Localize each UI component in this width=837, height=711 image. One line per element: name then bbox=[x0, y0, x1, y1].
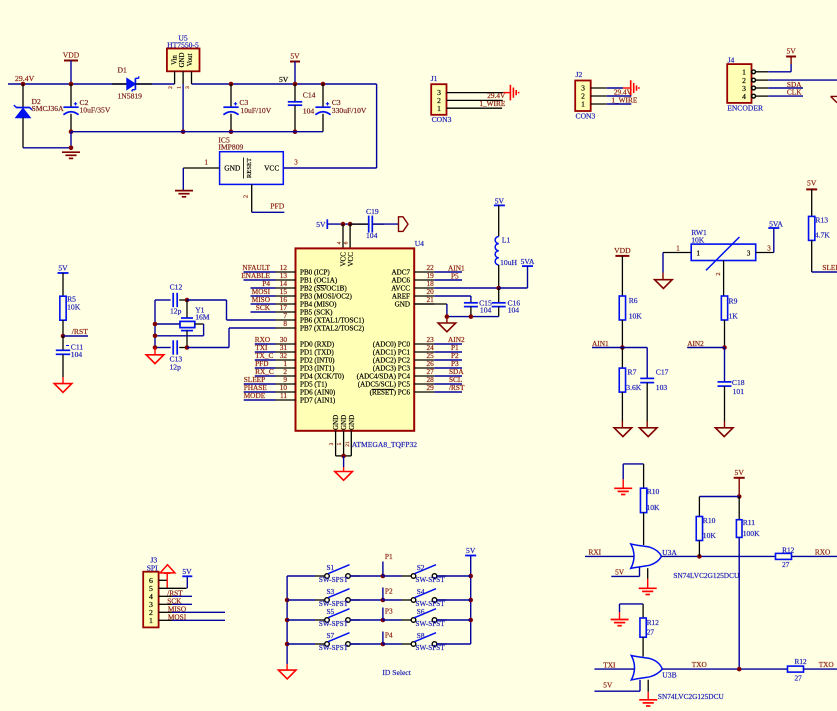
wire R11 down to TXO bbox=[738, 537, 740, 669]
pin U3B ground bbox=[647, 680, 649, 692]
svg-text:C14: C14 bbox=[303, 91, 316, 100]
svg-text:2: 2 bbox=[715, 272, 722, 275]
resistor R9 1K bbox=[721, 296, 727, 320]
wire GND to ground bbox=[343, 456, 345, 467]
wire 5V to IMP809 VCC bbox=[376, 84, 378, 168]
wire S7 to node P4 bbox=[350, 643, 383, 645]
junction C12-Y1 bbox=[185, 298, 190, 303]
ground triangle C18 bbox=[715, 428, 733, 437]
capacitor C3 330uF/10V bbox=[322, 84, 324, 107]
wire net PHASE bbox=[244, 391, 276, 393]
junction node P1 bbox=[381, 574, 386, 579]
svg-text:SW-SPST: SW-SPST bbox=[319, 644, 349, 652]
pin J4.2 wire SDA bbox=[752, 78, 756, 82]
svg-text:PB6 (XTAL1/TOSC1): PB6 (XTAL1/TOSC1) bbox=[300, 317, 365, 325]
gate U3B SN74LVC2G125DCU bbox=[620, 603, 644, 605]
svg-text:5VA: 5VA bbox=[769, 219, 783, 228]
ground red J1 bbox=[503, 92, 510, 94]
switch S6 SW-SPST bbox=[411, 618, 416, 623]
svg-text:104: 104 bbox=[366, 231, 378, 240]
gate body U3B bbox=[631, 656, 662, 680]
svg-text:10K: 10K bbox=[703, 531, 717, 540]
wire net ENABLE bbox=[244, 279, 276, 281]
capacitor C18 101 bbox=[724, 348, 726, 382]
svg-text:SW-SPST: SW-SPST bbox=[416, 620, 446, 628]
wire net AIN2 bbox=[434, 343, 462, 345]
svg-text:4: 4 bbox=[336, 241, 342, 244]
wire C12 to XTAL1 bbox=[187, 299, 227, 301]
pin U4.22 ADC7 bbox=[414, 271, 434, 273]
svg-text:5V: 5V bbox=[786, 46, 796, 55]
pin J3.2 wire MISO bbox=[159, 611, 172, 613]
pin U5.1 GND bbox=[182, 71, 184, 84]
pin U4 VCC a bbox=[342, 224, 344, 248]
svg-text:R12: R12 bbox=[795, 657, 808, 666]
svg-text:PB4 (MISO): PB4 (MISO) bbox=[300, 301, 337, 309]
svg-text:(RESET) PC6: (RESET) PC6 bbox=[370, 389, 411, 397]
svg-text:S2: S2 bbox=[417, 563, 425, 572]
wire net SLEEP bbox=[244, 383, 276, 385]
ground earth U3B enable bbox=[611, 619, 629, 621]
pin U4.31 PD1 (TXD) bbox=[276, 351, 296, 353]
svg-text:2: 2 bbox=[243, 195, 250, 198]
junction AIN1 bbox=[620, 345, 625, 350]
svg-text:S1: S1 bbox=[327, 563, 335, 572]
svg-text:RESET: RESET bbox=[246, 158, 253, 178]
svg-text:12p: 12p bbox=[170, 306, 182, 315]
pin IC5.2 RESET bbox=[251, 184, 253, 212]
wire switch left bus bbox=[286, 576, 288, 664]
svg-text:S4: S4 bbox=[417, 587, 425, 596]
wire ground rail bbox=[71, 131, 323, 133]
resistor R5 10K bbox=[62, 273, 64, 296]
svg-text:5V: 5V bbox=[58, 264, 68, 273]
pin U3A ground bbox=[647, 568, 649, 579]
junction C13-Y1 bbox=[185, 345, 190, 350]
svg-text:100K: 100K bbox=[743, 529, 760, 538]
svg-text:5V: 5V bbox=[495, 196, 505, 205]
pin J3.5 to 5V bbox=[159, 587, 187, 589]
resistor R12 (TXO) 27 bbox=[788, 666, 804, 672]
svg-text:L1: L1 bbox=[502, 235, 511, 244]
svg-text:104: 104 bbox=[508, 306, 520, 315]
resistor R6 10K bbox=[621, 256, 623, 296]
svg-text:6: 6 bbox=[344, 241, 350, 244]
resistor R12 (enable) 27 bbox=[642, 604, 644, 618]
svg-text:SW-SPST: SW-SPST bbox=[416, 576, 446, 584]
junction VCC pin b bbox=[348, 222, 353, 227]
svg-text:5V: 5V bbox=[735, 468, 745, 477]
pin U4.1 PD3 (INT1) bbox=[276, 367, 296, 369]
pin U4.15 PB3 (MOSI/OC2) bbox=[276, 295, 296, 297]
wire net RX_C bbox=[255, 375, 276, 377]
capacitor C3 10uF/10V bbox=[230, 84, 232, 107]
wire S8 to right bus bbox=[437, 643, 471, 645]
svg-text:S3: S3 bbox=[327, 587, 335, 596]
wire 5V to VCC pins bbox=[327, 223, 368, 225]
svg-text:SW-SPST: SW-SPST bbox=[416, 644, 446, 652]
resistor R7 3.6K bbox=[621, 348, 623, 369]
junction AIN2 bbox=[722, 345, 727, 350]
pin U4.14 PB2 (SS/OC1B) bbox=[276, 287, 296, 289]
pin U4.19 ADC6 bbox=[414, 279, 434, 281]
svg-text:PD6 (AIN0): PD6 (AIN0) bbox=[300, 389, 336, 397]
svg-text:4: 4 bbox=[742, 92, 746, 101]
svg-text:VDD: VDD bbox=[63, 50, 80, 59]
pin U4.25 (ADC2) PC2 bbox=[414, 359, 434, 361]
capacitor C13 12p bbox=[155, 347, 171, 349]
svg-text:(ADC4/SDA) PC4: (ADC4/SDA) PC4 bbox=[357, 373, 411, 381]
svg-text:PB0 (ICP): PB0 (ICP) bbox=[300, 269, 330, 277]
ground earth main bbox=[62, 151, 80, 153]
wire net PFD bbox=[255, 367, 276, 369]
junction C3a top bbox=[229, 82, 234, 87]
wire C13 to XTAL2 bbox=[187, 347, 229, 349]
svg-text:(ADC3) PC3: (ADC3) PC3 bbox=[373, 365, 411, 373]
wire U3B output bbox=[662, 668, 787, 670]
wire net SCK bbox=[251, 311, 276, 313]
pin U4.32 PD2 (INT0) bbox=[276, 359, 296, 361]
svg-text:3: 3 bbox=[329, 442, 335, 445]
svg-text:5V: 5V bbox=[316, 220, 326, 229]
svg-text:103: 103 bbox=[656, 383, 668, 392]
svg-text:P5: P5 bbox=[451, 271, 459, 280]
svg-text:IMP809: IMP809 bbox=[218, 143, 243, 152]
wire S2 to right bus bbox=[437, 575, 471, 577]
wire net P2 bbox=[434, 359, 462, 361]
svg-text:R6: R6 bbox=[629, 296, 638, 305]
svg-text:TXO: TXO bbox=[819, 660, 834, 669]
pin J4.1 bbox=[752, 70, 756, 74]
net stub P3 bbox=[382, 608, 384, 621]
svg-text:10K: 10K bbox=[629, 312, 643, 321]
ground triangle crystal bbox=[154, 348, 156, 355]
ground triangle switch bus bbox=[286, 664, 288, 670]
net stub P2 bbox=[382, 588, 384, 601]
pin U4.16 PB4 (MISO) bbox=[276, 303, 296, 305]
svg-text:1: 1 bbox=[149, 616, 153, 625]
svg-text:R7: R7 bbox=[628, 367, 637, 376]
ground triangle R7 bbox=[614, 428, 632, 437]
pin U4.24 (ADC1) PC1 bbox=[414, 351, 434, 353]
wire SLEEP to edge bbox=[812, 271, 837, 273]
pin J1.1 wire bbox=[447, 107, 503, 109]
svg-text:104: 104 bbox=[480, 306, 492, 315]
svg-text:C12: C12 bbox=[170, 283, 183, 292]
diode D1 1N5819 bbox=[112, 83, 127, 85]
svg-text:VCC: VCC bbox=[264, 164, 279, 173]
pin J4.4 wire bbox=[752, 94, 756, 98]
svg-text:S8: S8 bbox=[417, 631, 425, 640]
svg-text:R10: R10 bbox=[647, 487, 660, 496]
svg-text:PB2 (SS/OC1B): PB2 (SS/OC1B) bbox=[300, 285, 347, 293]
wire node to S8 bbox=[383, 643, 402, 645]
svg-text:S5: S5 bbox=[327, 607, 335, 616]
svg-text:GND: GND bbox=[224, 164, 241, 173]
svg-text:5V: 5V bbox=[279, 75, 289, 84]
wire S3 to node P2 bbox=[350, 599, 383, 601]
wire pullup rail bbox=[699, 496, 739, 498]
overline RESET on PC6 pin name bbox=[372, 388, 394, 390]
svg-text:5V: 5V bbox=[615, 568, 625, 577]
pin J1.2 wire 1_WIRE bbox=[447, 99, 503, 101]
junction node P4 bbox=[381, 642, 386, 647]
svg-text:PD4 (XCK/T0): PD4 (XCK/T0) bbox=[300, 373, 345, 381]
ground triangle C11 bbox=[54, 384, 72, 393]
svg-text:CON3: CON3 bbox=[576, 111, 596, 120]
svg-text:5V: 5V bbox=[807, 179, 817, 188]
svg-text:1K: 1K bbox=[729, 312, 739, 321]
pin U4.13 PB1 (OC1A) bbox=[276, 279, 296, 281]
junction TXO / R11 bbox=[737, 667, 742, 672]
junction VCC pin a bbox=[341, 222, 346, 227]
ground triangle RW1 bbox=[662, 273, 664, 280]
resistor R11 100K bbox=[738, 497, 740, 520]
svg-text:TXI: TXI bbox=[603, 660, 616, 669]
svg-text:PFD: PFD bbox=[270, 202, 284, 211]
wire net P5 (ADC6) bbox=[434, 279, 462, 281]
ground earth U3A bbox=[639, 587, 657, 589]
svg-text:P1: P1 bbox=[385, 552, 393, 561]
wire TXI input bbox=[594, 668, 634, 670]
switch S5 SW-SPST bbox=[287, 619, 315, 621]
capacitor C16 104 bbox=[498, 288, 500, 303]
svg-text:3.6K: 3.6K bbox=[626, 383, 641, 392]
svg-text:3: 3 bbox=[747, 249, 751, 257]
svg-text:MOSI: MOSI bbox=[168, 613, 187, 622]
sheet connector arrow right edge bbox=[831, 96, 837, 102]
power port 5V (J3) bbox=[182, 575, 192, 577]
wire net TXI bbox=[255, 351, 276, 353]
pin U4.11 PD7 (AIN1) bbox=[276, 399, 296, 401]
resistor R13 4.7K bbox=[811, 189, 813, 216]
svg-text:5V: 5V bbox=[466, 546, 476, 555]
svg-text:R11: R11 bbox=[743, 518, 756, 527]
wire net P4 bbox=[251, 287, 276, 289]
svg-text:PD5 (T1): PD5 (T1) bbox=[300, 381, 328, 389]
wire net SDA bbox=[434, 375, 462, 377]
wire U5 GND down bbox=[182, 84, 184, 132]
svg-text:U3B: U3B bbox=[662, 671, 676, 680]
svg-text:10K: 10K bbox=[691, 236, 705, 245]
svg-text:GND: GND bbox=[348, 415, 356, 430]
wire net /RST bbox=[434, 391, 462, 393]
pin U4.7 PB6 (XTAL1/TOSC1) bbox=[276, 319, 296, 321]
svg-text:R12: R12 bbox=[782, 545, 795, 554]
svg-text:1: 1 bbox=[177, 86, 183, 89]
svg-text:SCK: SCK bbox=[256, 303, 271, 312]
wire node to S4 bbox=[383, 599, 402, 601]
power port 5V main bbox=[290, 61, 300, 63]
wire U3A output bbox=[662, 555, 776, 557]
pin U4.18 AVCC bbox=[414, 287, 434, 289]
svg-text:21: 21 bbox=[427, 295, 435, 304]
svg-text:4.7K: 4.7K bbox=[815, 230, 830, 239]
svg-text:R10: R10 bbox=[703, 516, 716, 525]
svg-text:PB5 (SCK): PB5 (SCK) bbox=[300, 309, 333, 317]
svg-text:/RST: /RST bbox=[72, 327, 88, 336]
junction C3b top bbox=[321, 82, 326, 87]
wire net MISO bbox=[251, 303, 276, 305]
svg-text:SW-SPST: SW-SPST bbox=[319, 576, 349, 584]
svg-text:29.4V: 29.4V bbox=[15, 74, 35, 83]
svg-text:S7: S7 bbox=[327, 631, 335, 640]
pin U4.23 (ADC0) PC0 bbox=[414, 343, 434, 345]
svg-text:AIN1: AIN1 bbox=[592, 339, 609, 348]
svg-text:PB7 (XTAL2/TOSC2): PB7 (XTAL2/TOSC2) bbox=[300, 325, 365, 333]
svg-text:1: 1 bbox=[437, 104, 441, 113]
resistor R10 (enable) 10K bbox=[643, 464, 645, 488]
resistor R12 (RXO) 27 bbox=[776, 553, 792, 559]
svg-text:29: 29 bbox=[427, 383, 435, 392]
pin U4.10 PD6 (AIN0) bbox=[276, 391, 296, 393]
svg-text:CLK: CLK bbox=[787, 87, 802, 96]
net stub P1 bbox=[382, 562, 384, 577]
svg-text:5V: 5V bbox=[603, 681, 613, 690]
pin U4.9 PD5 (T1) bbox=[276, 383, 296, 385]
svg-text:21: 21 bbox=[345, 441, 351, 447]
svg-text:J4: J4 bbox=[728, 55, 735, 64]
svg-text:ADC6: ADC6 bbox=[391, 277, 410, 285]
sheet connector arrow C19 bbox=[399, 217, 409, 232]
gate U3A SN74LVC2G125DCU bbox=[623, 463, 643, 465]
pin RW1.3 bbox=[756, 252, 774, 254]
svg-text:(ADC5/SCL) PC5: (ADC5/SCL) PC5 bbox=[358, 381, 411, 389]
gate body U3A bbox=[631, 544, 662, 568]
ground triangle AREF bbox=[446, 317, 448, 323]
wire crystal case right loop bbox=[195, 323, 204, 325]
pin J1.3 wire 29.4V bbox=[447, 92, 504, 94]
svg-text:5V: 5V bbox=[290, 51, 300, 60]
svg-text:/RST: /RST bbox=[449, 383, 465, 392]
svg-text:Vout: Vout bbox=[187, 54, 194, 67]
svg-text:SW-SPST: SW-SPST bbox=[319, 620, 349, 628]
power port 5V (switches) bbox=[465, 555, 476, 557]
pin U5.2 Vin bbox=[174, 71, 176, 84]
wire net SCL bbox=[434, 383, 462, 385]
power port 5V (J4) bbox=[790, 57, 792, 65]
wire S6 to right bus bbox=[437, 619, 471, 621]
ground earth IC5 bbox=[175, 190, 193, 192]
svg-text:ENCODER: ENCODER bbox=[727, 103, 764, 112]
svg-text:101: 101 bbox=[733, 387, 745, 396]
capacitor C11 104 bbox=[62, 336, 64, 350]
svg-text:J1: J1 bbox=[431, 74, 438, 83]
svg-text:PD2 (INT0): PD2 (INT0) bbox=[300, 357, 335, 365]
pin J4.3 wire CLK bbox=[752, 86, 756, 90]
svg-text:10K: 10K bbox=[67, 302, 81, 311]
resistor R10 pullup 10K bbox=[698, 497, 700, 517]
wire S4 to right bus bbox=[437, 599, 471, 601]
svg-text:SN74LVC2G125DCU: SN74LVC2G125DCU bbox=[658, 692, 725, 701]
pin RW1.1 bbox=[663, 252, 691, 254]
svg-text:27: 27 bbox=[647, 627, 655, 636]
svg-text:10uF/10V: 10uF/10V bbox=[240, 106, 271, 115]
svg-text:PB1 (OC1A): PB1 (OC1A) bbox=[300, 277, 338, 285]
pin U4.30 PD0 (RXD) bbox=[276, 343, 296, 345]
wire AVCC to L1 node bbox=[434, 287, 499, 289]
pin U4.26 (ADC3) PC3 bbox=[414, 367, 434, 369]
switch S1 SW-SPST bbox=[287, 575, 315, 577]
net stub P4 bbox=[382, 632, 384, 645]
switch S3 SW-SPST bbox=[287, 599, 315, 601]
svg-text:GND: GND bbox=[332, 415, 340, 430]
svg-text:ATMEGA8_TQFP32: ATMEGA8_TQFP32 bbox=[352, 440, 418, 449]
ground earth U3B bbox=[639, 699, 657, 701]
power port 5VA (RW1) bbox=[773, 228, 775, 253]
svg-text:R9: R9 bbox=[729, 296, 738, 305]
svg-text:1: 1 bbox=[581, 100, 585, 109]
capacitor C17 103 bbox=[646, 348, 648, 379]
wire net P1 bbox=[434, 351, 462, 353]
junction /RST node bbox=[61, 334, 66, 339]
svg-text:VCC: VCC bbox=[347, 252, 355, 267]
svg-text:J2: J2 bbox=[576, 70, 583, 79]
pin IC5.1 bbox=[183, 167, 219, 169]
svg-text:12p: 12p bbox=[170, 362, 182, 371]
pin U4.21 GND bbox=[414, 303, 434, 305]
pin J2.2 wire 1_WIRE bbox=[591, 95, 607, 97]
svg-text:3: 3 bbox=[294, 159, 298, 167]
svg-text:11: 11 bbox=[280, 391, 287, 400]
wire switch right bus bbox=[470, 556, 472, 645]
capacitor C19 104 bbox=[350, 223, 368, 225]
pin U4.12 PB0 (ICP) bbox=[276, 271, 296, 273]
junction R10b output bbox=[697, 554, 702, 559]
svg-text:ID Select: ID Select bbox=[382, 668, 411, 677]
wire 5V output rail bbox=[192, 83, 377, 85]
svg-text:AREF: AREF bbox=[392, 293, 410, 301]
wire node to S6 bbox=[383, 619, 402, 621]
wire S5 to node P3 bbox=[350, 619, 383, 621]
svg-text:Vin: Vin bbox=[172, 55, 179, 65]
capacitor C15 104 bbox=[470, 301, 472, 303]
svg-text:1: 1 bbox=[676, 245, 680, 253]
wire net MOSI bbox=[251, 295, 276, 297]
wire GND pin 21 down bbox=[414, 303, 447, 305]
svg-text:CON3: CON3 bbox=[432, 115, 452, 124]
switch S2 SW-SPST bbox=[411, 574, 416, 579]
svg-text:10uH: 10uH bbox=[500, 258, 517, 267]
svg-text:RXO: RXO bbox=[815, 548, 830, 557]
pin J3.6 to red arrow ground bbox=[159, 579, 168, 581]
svg-text:MODE: MODE bbox=[244, 391, 266, 400]
wire to TXO edge bbox=[804, 668, 837, 670]
power port VDD bbox=[64, 60, 78, 62]
svg-text:(ADC2) PC2: (ADC2) PC2 bbox=[373, 357, 411, 365]
svg-text:3: 3 bbox=[185, 86, 191, 89]
svg-text:GND: GND bbox=[395, 301, 410, 309]
pin U4.8 PB7 (XTAL2/TOSC2) bbox=[276, 327, 296, 329]
junction VDD stem bbox=[69, 82, 74, 87]
svg-text:PD1 (TXD): PD1 (TXD) bbox=[300, 349, 334, 357]
svg-text:P2: P2 bbox=[385, 587, 393, 596]
wire ground rail under C2 bbox=[70, 132, 72, 150]
wire net RXO bbox=[255, 343, 276, 345]
wire net AIN1 (ADC7) bbox=[434, 271, 462, 273]
wire net P3 bbox=[434, 367, 462, 369]
svg-text:SN74LVC2G125DCU: SN74LVC2G125DCU bbox=[673, 571, 740, 580]
switch S4 SW-SPST bbox=[411, 598, 416, 603]
junction D2 tap bbox=[21, 82, 26, 87]
wire J4.1 to 5V bbox=[768, 71, 791, 73]
svg-text:27: 27 bbox=[795, 673, 803, 682]
svg-text:(ADC0) PC0: (ADC0) PC0 bbox=[373, 341, 411, 349]
wire crystal case left bbox=[155, 323, 180, 325]
svg-text:3: 3 bbox=[767, 245, 771, 253]
wire net TX_C bbox=[255, 359, 276, 361]
svg-text:1N5819: 1N5819 bbox=[118, 91, 143, 100]
